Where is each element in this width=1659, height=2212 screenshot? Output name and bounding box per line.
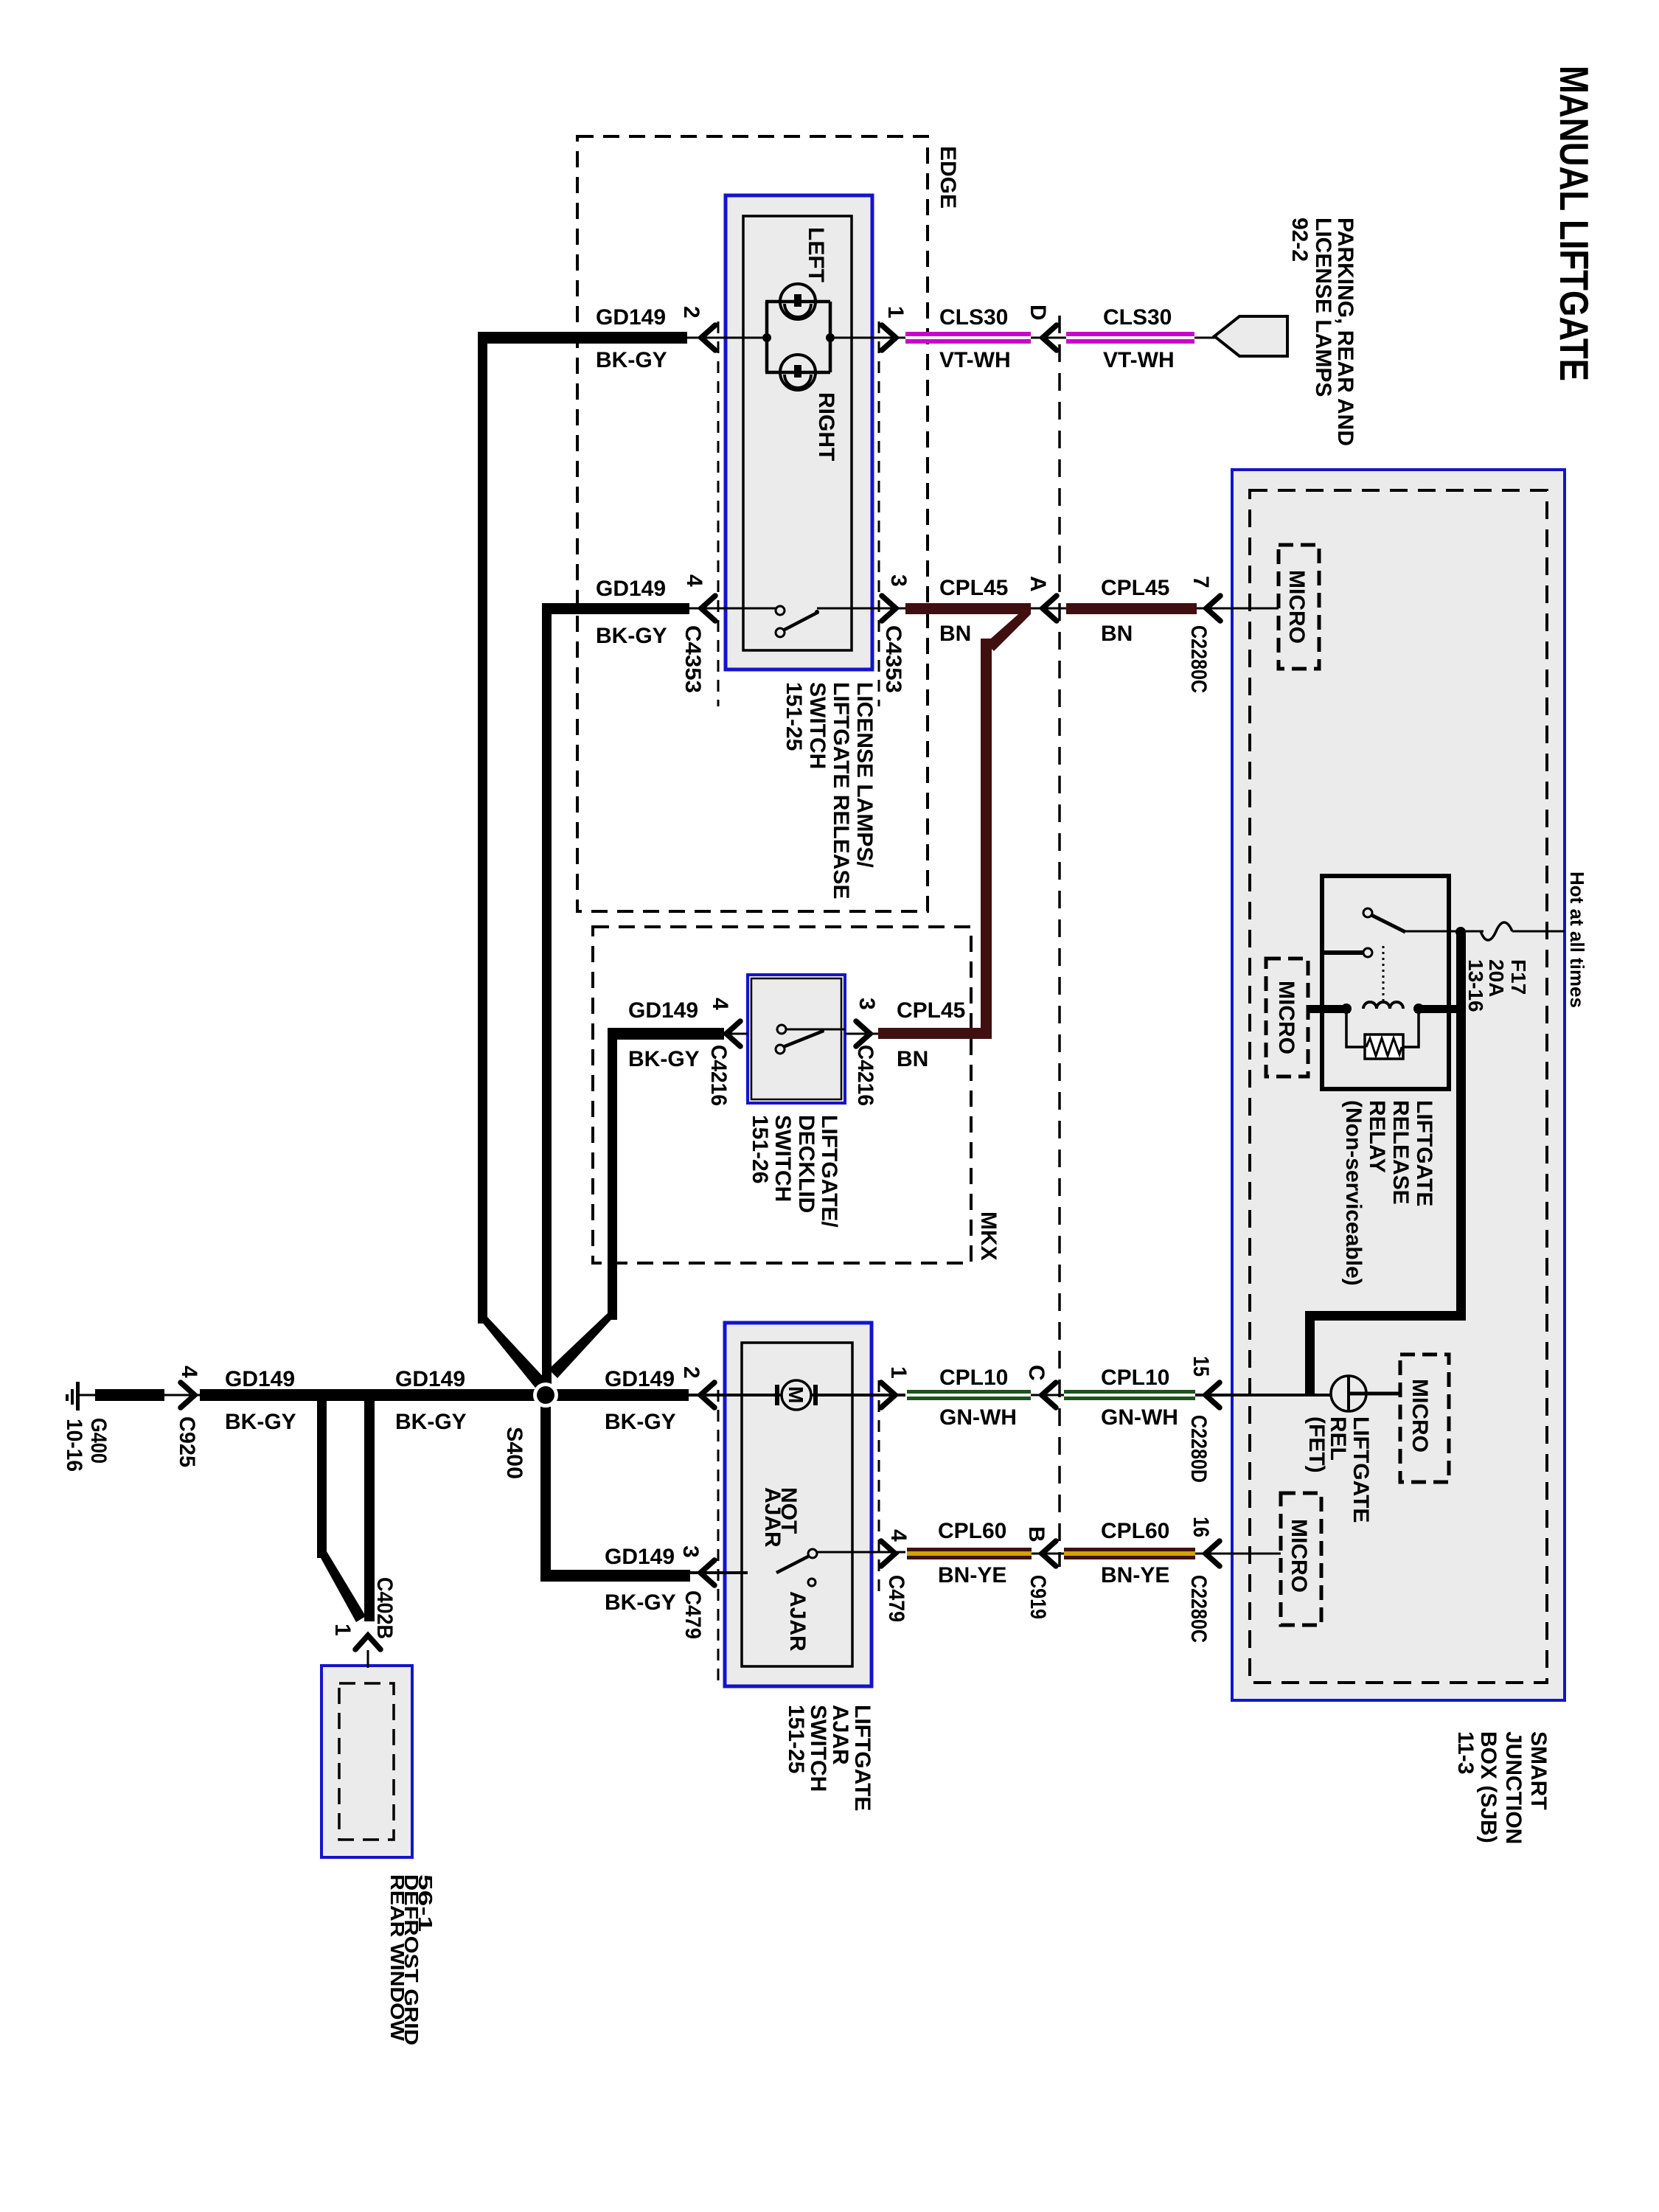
svg-text:BN-YE: BN-YE (938, 1563, 1006, 1587)
svg-text:LIFTGATE RELEASE: LIFTGATE RELEASE (829, 682, 853, 899)
svg-text:151-25: 151-25 (782, 682, 806, 751)
svg-text:LIFTGATE/: LIFTGATE/ (817, 1115, 841, 1228)
svg-text:GN-WH: GN-WH (1101, 1405, 1178, 1430)
svg-text:F17: F17 (1507, 959, 1530, 995)
svg-text:151-25: 151-25 (784, 1705, 808, 1773)
svg-text:LICENSE LAMPS: LICENSE LAMPS (1311, 218, 1335, 397)
svg-text:GD149: GD149 (225, 1367, 295, 1391)
svg-text:(FET): (FET) (1304, 1416, 1329, 1473)
svg-text:(Non-serviceable): (Non-serviceable) (1341, 1100, 1366, 1286)
svg-text:92-2: 92-2 (1287, 218, 1312, 262)
svg-text:PARKING, REAR AND: PARKING, REAR AND (1333, 218, 1357, 446)
svg-text:LICENSE LAMPS/: LICENSE LAMPS/ (852, 682, 877, 868)
svg-text:11-3: 11-3 (1453, 1731, 1478, 1774)
svg-text:BK-GY: BK-GY (596, 348, 667, 372)
svg-text:CLS30: CLS30 (939, 305, 1008, 330)
svg-text:M: M (785, 1386, 807, 1403)
svg-text:1: 1 (883, 306, 908, 319)
svg-text:CPL60: CPL60 (1101, 1519, 1169, 1543)
svg-text:GD149: GD149 (628, 998, 698, 1023)
svg-text:MICRO: MICRO (1408, 1379, 1432, 1453)
svg-text:151-26: 151-26 (748, 1115, 772, 1183)
svg-text:4: 4 (682, 574, 706, 587)
svg-text:4: 4 (886, 1529, 911, 1542)
svg-text:DECKLID: DECKLID (794, 1115, 818, 1213)
svg-text:C4216: C4216 (706, 1045, 731, 1106)
svg-text:GD149: GD149 (395, 1367, 465, 1391)
svg-text:BN: BN (939, 622, 971, 646)
svg-text:C479: C479 (884, 1575, 908, 1622)
svg-text:LEFT: LEFT (804, 227, 828, 282)
svg-text:C402B: C402B (372, 1577, 397, 1639)
svg-text:BN-YE: BN-YE (1101, 1563, 1169, 1587)
svg-text:2: 2 (679, 306, 703, 319)
svg-text:C2280C: C2280C (1186, 625, 1211, 693)
svg-text:MICRO: MICRO (1287, 1519, 1311, 1593)
svg-text:MICRO: MICRO (1274, 981, 1298, 1054)
svg-text:CPL60: CPL60 (938, 1519, 1006, 1543)
svg-text:CPL45: CPL45 (1101, 576, 1169, 600)
svg-text:C4353: C4353 (681, 625, 705, 693)
svg-text:20A: 20A (1485, 959, 1508, 997)
svg-text:4: 4 (708, 998, 732, 1010)
svg-text:16: 16 (1189, 1517, 1213, 1537)
svg-text:BN: BN (897, 1047, 928, 1071)
svg-text:2: 2 (679, 1366, 703, 1379)
svg-text:EDGE: EDGE (936, 146, 960, 209)
svg-text:AJAR: AJAR (828, 1705, 852, 1765)
svg-text:Hot at all times: Hot at all times (1566, 872, 1588, 1008)
svg-text:SWITCH: SWITCH (806, 1705, 830, 1792)
svg-text:BK-GY: BK-GY (596, 624, 667, 648)
svg-text:MANUAL LIFTGATE: MANUAL LIFTGATE (1551, 66, 1597, 381)
svg-text:C4216: C4216 (853, 1045, 877, 1106)
svg-text:13-16: 13-16 (1464, 959, 1487, 1012)
svg-text:VT-WH: VT-WH (939, 348, 1011, 372)
svg-text:GD149: GD149 (605, 1545, 675, 1569)
svg-text:C2280C: C2280C (1186, 1575, 1211, 1643)
svg-text:C919: C919 (1026, 1575, 1050, 1619)
svg-text:GD149: GD149 (596, 305, 666, 330)
svg-text:GD149: GD149 (605, 1367, 675, 1391)
svg-text:GD149: GD149 (596, 577, 666, 601)
svg-text:LIFTGATE: LIFTGATE (1412, 1100, 1436, 1206)
svg-text:3: 3 (855, 998, 879, 1010)
svg-text:RIGHT: RIGHT (814, 392, 838, 461)
svg-text:BN: BN (1101, 622, 1133, 646)
svg-text:RELEASE: RELEASE (1388, 1100, 1413, 1205)
svg-text:BK-GY: BK-GY (395, 1410, 467, 1434)
svg-text:BK-GY: BK-GY (605, 1410, 676, 1434)
svg-text:7: 7 (1189, 576, 1213, 588)
svg-text:15: 15 (1189, 1356, 1213, 1377)
svg-text:56-1: 56-1 (414, 1874, 437, 1932)
svg-text:BK-GY: BK-GY (605, 1590, 676, 1615)
svg-text:AJAR: AJAR (785, 1591, 810, 1652)
svg-text:SWITCH: SWITCH (805, 682, 829, 769)
svg-text:JUNCTION: JUNCTION (1501, 1731, 1526, 1844)
svg-text:LIFTGATE: LIFTGATE (1349, 1416, 1373, 1523)
svg-text:AJAR: AJAR (760, 1487, 785, 1548)
svg-text:1: 1 (886, 1366, 911, 1379)
svg-text:C479: C479 (681, 1590, 705, 1639)
svg-text:S400: S400 (502, 1427, 526, 1479)
svg-text:CPL10: CPL10 (1101, 1366, 1169, 1390)
svg-text:3: 3 (678, 1545, 703, 1558)
svg-text:D: D (1026, 305, 1050, 321)
svg-text:CLS30: CLS30 (1103, 305, 1172, 330)
svg-text:CPL10: CPL10 (939, 1366, 1008, 1390)
svg-text:CPL45: CPL45 (897, 998, 965, 1023)
svg-text:1: 1 (330, 1624, 355, 1636)
svg-text:RELAY: RELAY (1365, 1100, 1389, 1173)
svg-text:MKX: MKX (976, 1211, 1001, 1261)
svg-text:BK-GY: BK-GY (225, 1410, 296, 1434)
svg-text:VT-WH: VT-WH (1103, 348, 1175, 372)
svg-text:B: B (1024, 1526, 1048, 1543)
svg-text:LIFTGATE: LIFTGATE (850, 1705, 874, 1811)
svg-text:MICRO: MICRO (1284, 570, 1309, 644)
svg-text:BK-GY: BK-GY (628, 1047, 700, 1071)
svg-text:3: 3 (886, 574, 911, 587)
svg-text:4: 4 (177, 1366, 201, 1378)
svg-text:10-16: 10-16 (62, 1419, 86, 1472)
svg-text:CPL45: CPL45 (939, 576, 1008, 600)
svg-text:C4353: C4353 (881, 625, 905, 693)
svg-text:G400: G400 (86, 1418, 111, 1464)
svg-text:C2280D: C2280D (1186, 1415, 1211, 1483)
svg-text:GN-WH: GN-WH (939, 1405, 1017, 1430)
svg-text:C925: C925 (175, 1416, 199, 1467)
svg-text:BOX (SJB): BOX (SJB) (1476, 1731, 1500, 1843)
svg-text:C: C (1024, 1365, 1048, 1381)
svg-text:A: A (1026, 576, 1050, 592)
svg-text:SMART: SMART (1526, 1731, 1551, 1810)
svg-text:SWITCH: SWITCH (771, 1115, 795, 1202)
